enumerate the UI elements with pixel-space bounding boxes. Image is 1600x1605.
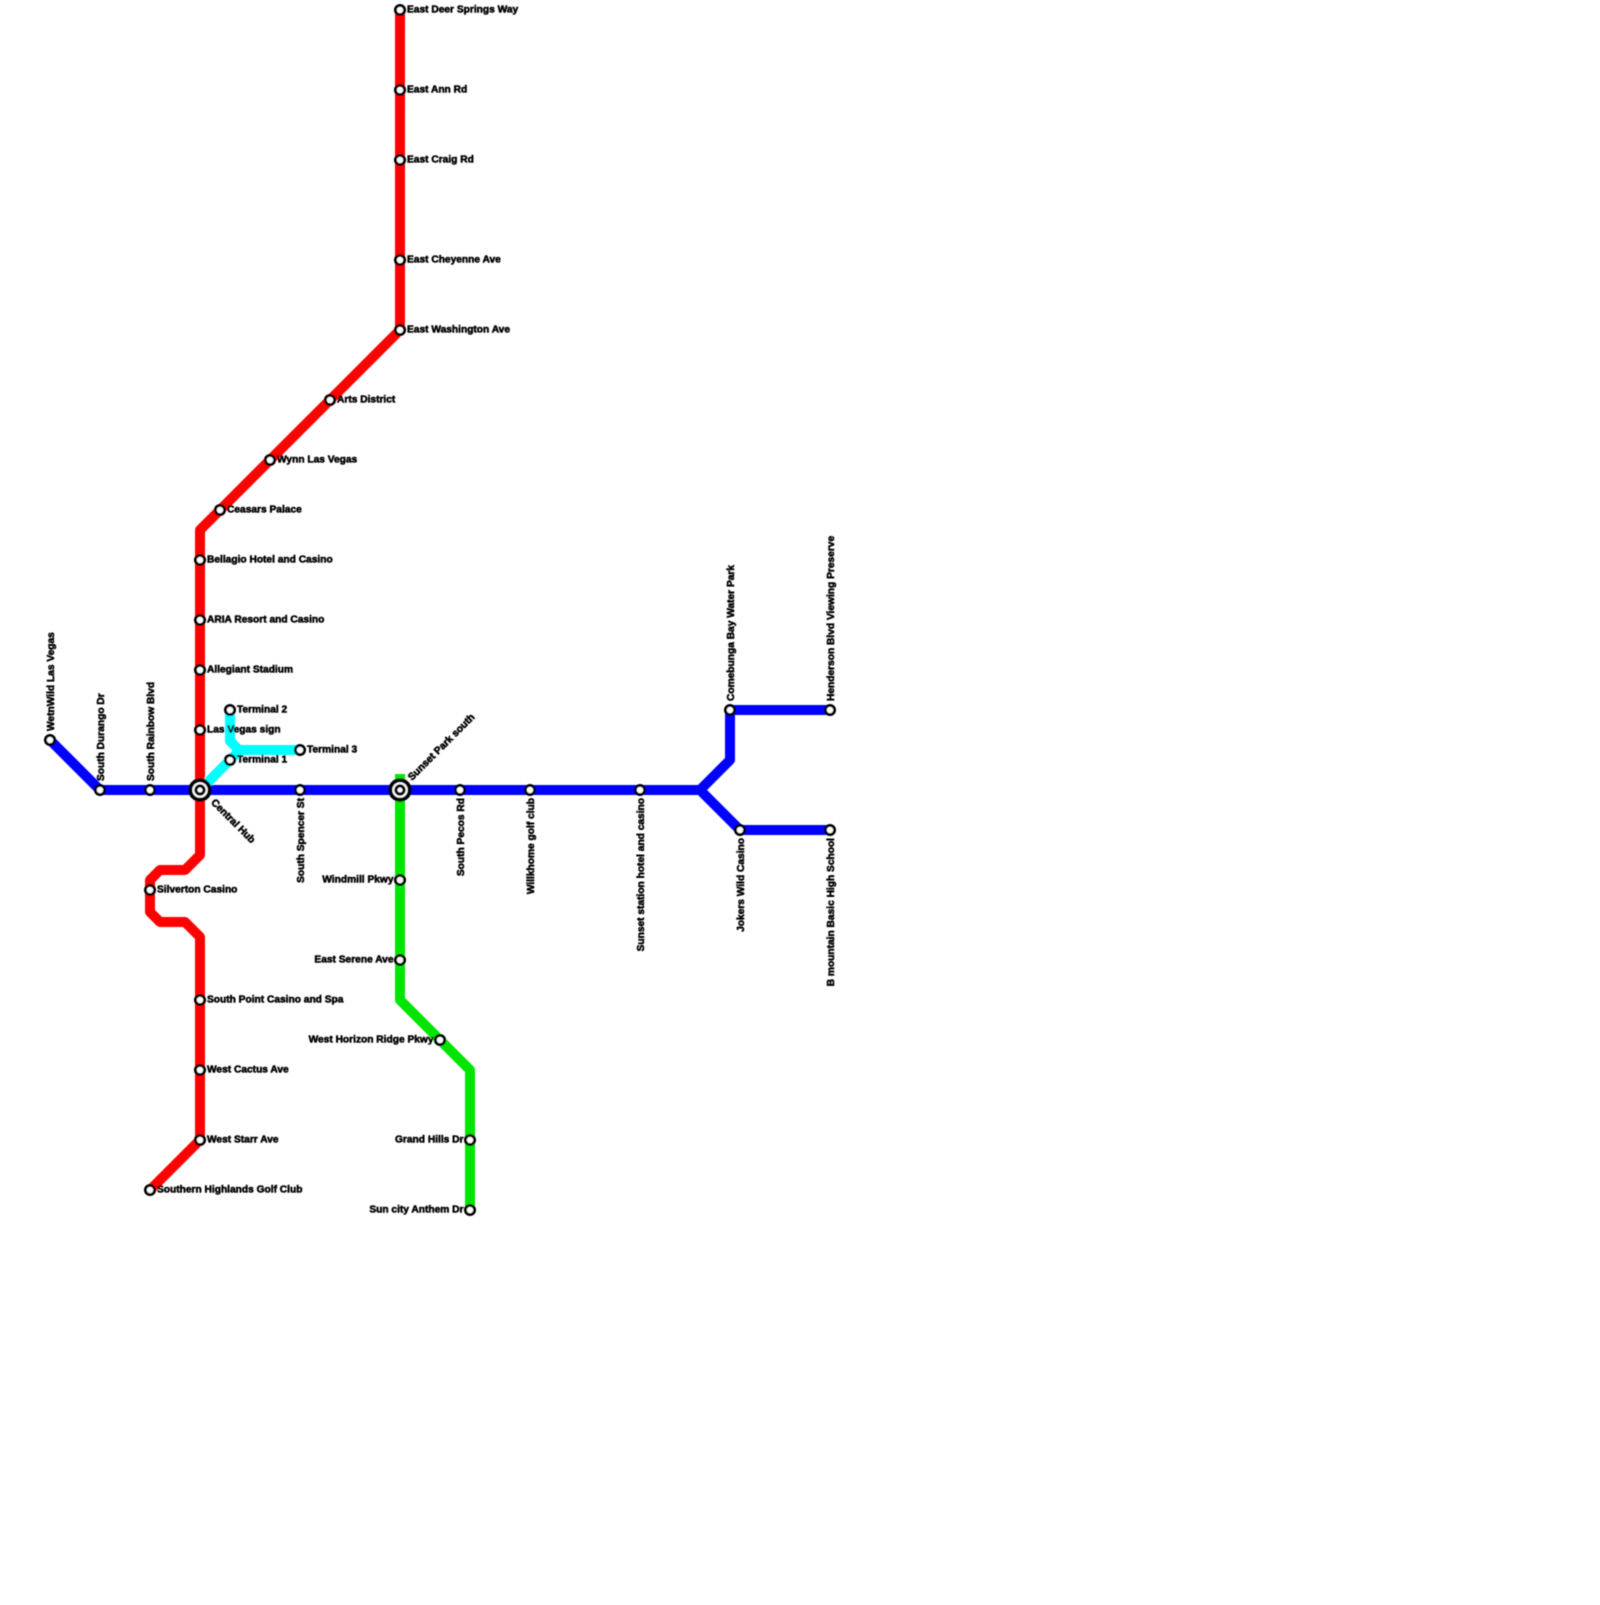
svg-text:Windmill Pkwy: Windmill Pkwy — [322, 875, 394, 886]
svg-text:Allegiant Stadium: Allegiant Stadium — [207, 665, 293, 676]
svg-text:South Spencer St: South Spencer St — [296, 797, 307, 883]
svg-text:B mountain Basic High School: B mountain Basic High School — [826, 838, 837, 986]
svg-text:West Starr Ave: West Starr Ave — [207, 1135, 279, 1146]
svg-text:Willkhome golf club: Willkhome golf club — [526, 798, 537, 894]
svg-text:Southern Highlands Golf Club: Southern Highlands Golf Club — [157, 1185, 302, 1196]
svg-text:Grand Hills Dr: Grand Hills Dr — [395, 1135, 464, 1146]
svg-text:ARIA Resort and Casino: ARIA Resort and Casino — [207, 615, 324, 626]
svg-text:South Durango Dr: South Durango Dr — [96, 693, 107, 781]
svg-text:East Ann Rd: East Ann Rd — [407, 85, 467, 96]
svg-text:South Rainbow Blvd: South Rainbow Blvd — [146, 682, 157, 781]
svg-text:West Cactus Ave: West Cactus Ave — [207, 1065, 289, 1076]
svg-text:Terminal 2: Terminal 2 — [237, 705, 288, 716]
svg-text:Sunset station hotel and casin: Sunset station hotel and casino — [636, 798, 647, 951]
svg-text:Wynn Las Vegas: Wynn Las Vegas — [277, 455, 358, 466]
svg-text:East Craig Rd: East Craig Rd — [407, 155, 474, 166]
svg-text:Silverton Casino: Silverton Casino — [157, 885, 237, 896]
svg-text:Las Vegas sign: Las Vegas sign — [207, 725, 281, 736]
svg-text:Jokers Wild Casino: Jokers Wild Casino — [736, 838, 747, 932]
svg-text:East Serene Ave: East Serene Ave — [314, 955, 393, 966]
svg-text:Henderson Blvd Viewing Preserv: Henderson Blvd Viewing Preserve — [826, 536, 837, 701]
svg-text:Ceasars Palace: Ceasars Palace — [227, 505, 302, 516]
svg-text:South Point Casino and Spa: South Point Casino and Spa — [207, 995, 344, 1006]
svg-text:Terminal 3: Terminal 3 — [307, 745, 358, 756]
svg-text:Sun city Anthem Dr: Sun city Anthem Dr — [369, 1205, 463, 1216]
svg-text:East Washington Ave: East Washington Ave — [407, 325, 510, 336]
svg-text:Terminal 1: Terminal 1 — [237, 755, 288, 766]
svg-text:Comebunga Bay Water Park: Comebunga Bay Water Park — [726, 565, 737, 701]
svg-text:Bellagio Hotel and Casino: Bellagio Hotel and Casino — [207, 555, 333, 566]
svg-text:West Horizon Ridge Pkwy: West Horizon Ridge Pkwy — [309, 1035, 434, 1046]
svg-text:East Deer Springs Way: East Deer Springs Way — [407, 5, 518, 16]
svg-text:Arts District: Arts District — [337, 395, 396, 406]
svg-text:East Cheyenne Ave: East Cheyenne Ave — [407, 255, 501, 266]
svg-text:South Pecos Rd: South Pecos Rd — [456, 798, 467, 876]
svg-text:WetnWild Las Vegas: WetnWild Las Vegas — [46, 632, 57, 731]
